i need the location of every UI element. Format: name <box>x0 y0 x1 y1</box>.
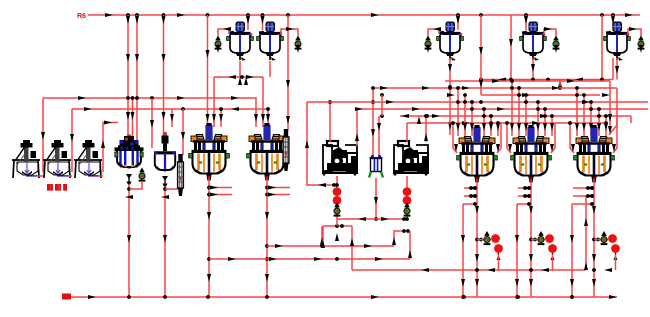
vent pipe T3 <box>428 29 439 36</box>
flow arrow <box>244 77 248 85</box>
top header junction <box>135 13 139 17</box>
flow arrow <box>318 183 326 187</box>
junction <box>150 96 154 100</box>
riser x410 <box>409 231 411 259</box>
flow arrow <box>127 235 131 243</box>
distribution header y81 <box>445 80 610 82</box>
top header flow arrow <box>105 13 113 17</box>
junction <box>586 194 590 198</box>
rotameter x477 <box>491 234 500 243</box>
T3 outlet drop <box>449 58 451 135</box>
reactor drop x267 <box>266 178 268 297</box>
flow arrow <box>475 206 479 214</box>
flow arrow <box>269 257 277 261</box>
flow arrow <box>131 112 135 120</box>
drop to receiver motor <box>171 109 173 127</box>
side hook L x531 <box>507 123 511 153</box>
third stub <box>463 203 475 205</box>
flow arrow <box>584 262 588 270</box>
flow arrow <box>522 93 530 97</box>
junction <box>592 238 596 242</box>
junction <box>470 107 474 111</box>
flow arrow <box>401 114 409 118</box>
flow arrow <box>544 27 552 31</box>
F1 feed 2 <box>378 116 380 155</box>
transfer line y259 <box>209 258 410 260</box>
flow arrow <box>447 93 455 97</box>
rotameter low x531 <box>548 244 557 260</box>
junction <box>448 86 452 90</box>
train valve x477 <box>484 231 491 245</box>
P2 riser R <box>425 116 427 142</box>
junction <box>219 107 223 111</box>
left sample stub <box>464 195 475 197</box>
flow arrow <box>286 27 294 31</box>
junction <box>516 295 520 299</box>
drop to mixer 2 <box>71 109 73 172</box>
flow arrow <box>550 123 554 131</box>
flow arrow <box>496 123 500 131</box>
junction <box>463 93 467 97</box>
flow arrow <box>417 116 421 124</box>
vent valve T4 <box>553 36 560 50</box>
reactor x531 bottom drop <box>530 180 532 297</box>
reactor feed drop x577 <box>576 88 578 136</box>
drop to T4 rim <box>525 15 527 30</box>
junction <box>340 224 344 228</box>
flow arrow <box>531 64 535 72</box>
junction <box>461 295 465 299</box>
distribution header y109 <box>357 108 648 110</box>
junction <box>604 114 608 118</box>
flow arrow <box>515 235 519 243</box>
junction <box>597 114 601 118</box>
side hook L x477 <box>453 123 457 153</box>
vent valve T2 <box>295 36 302 50</box>
recirc line to P1 <box>307 102 333 185</box>
junction <box>531 78 535 82</box>
junction <box>482 107 486 111</box>
junction <box>206 295 210 299</box>
flow arrow <box>412 107 420 111</box>
reactor feed drop x458 <box>457 88 459 136</box>
flow arrow <box>515 279 519 287</box>
flow arrow <box>567 79 575 83</box>
flow arrow <box>364 244 372 248</box>
bypass drop x463 <box>462 204 464 297</box>
vent outlet arrow T2 <box>296 45 300 53</box>
flow arrow <box>509 39 513 47</box>
junction <box>265 257 269 261</box>
long return y270 <box>352 269 586 271</box>
sample stub <box>209 187 232 189</box>
P1 discharge <box>336 176 338 219</box>
left sample stub <box>518 195 529 197</box>
junction <box>523 186 527 190</box>
drop to condenser A <box>182 109 184 155</box>
drop to T5 rim <box>612 15 614 30</box>
junction <box>479 100 483 104</box>
vent valve T1 <box>215 36 222 50</box>
junction <box>527 194 531 198</box>
flow arrow <box>609 295 617 299</box>
vacuum pump skid P1 <box>322 141 358 176</box>
junction <box>265 244 269 248</box>
flow arrow <box>335 233 339 241</box>
flow arrow <box>454 144 458 152</box>
condenser column CA <box>178 154 184 196</box>
reactor feed drop x498 <box>497 123 499 136</box>
flow arrow <box>470 123 474 131</box>
main bottom drain header <box>71 296 617 298</box>
flow arrow <box>463 123 467 131</box>
flow arrow <box>582 100 590 104</box>
flow arrow <box>170 114 174 122</box>
flow arrow <box>125 195 133 199</box>
reactor feed drop x545 <box>544 109 546 136</box>
flow arrow <box>261 16 265 24</box>
flow arrow <box>592 279 596 287</box>
junction <box>575 93 579 97</box>
flow arrow <box>162 16 166 24</box>
junction <box>127 295 131 299</box>
left sample stub <box>518 187 529 189</box>
flow arrow <box>286 116 290 124</box>
flow arrow <box>608 114 612 122</box>
junction <box>479 78 483 82</box>
distribution header y95 <box>481 94 600 96</box>
junction <box>470 100 474 104</box>
flow arrow <box>433 27 441 31</box>
P1 riser R <box>356 109 358 146</box>
flow arrow <box>543 123 547 131</box>
junction <box>374 217 378 221</box>
flow arrow <box>575 123 579 131</box>
flow arrow <box>475 254 479 262</box>
top header flow arrow <box>625 13 633 17</box>
flow arrow <box>479 80 483 88</box>
junction <box>406 229 410 233</box>
flow arrow <box>510 123 514 131</box>
flow arrow <box>212 114 216 122</box>
top header junction <box>126 13 130 17</box>
flow arrow <box>380 86 388 90</box>
flow arrow <box>246 75 254 79</box>
junction <box>462 295 466 299</box>
distribution header y88 <box>373 87 617 89</box>
staircase drop 2 <box>609 88 617 135</box>
riser x586 <box>585 196 587 270</box>
junction <box>590 194 594 198</box>
train valve x531 <box>538 231 545 245</box>
flow arrow <box>392 237 396 245</box>
reactor feed drop x519 <box>518 88 520 136</box>
drop to glass reactor <box>127 15 129 143</box>
tank collection header right <box>481 79 613 81</box>
flow arrow <box>181 132 185 140</box>
P1 riser L <box>329 102 331 142</box>
overhead feed tank T1 <box>227 22 254 61</box>
filter column F1 <box>369 155 383 178</box>
reactor feed drop x599 <box>598 109 600 136</box>
junction <box>527 186 531 190</box>
junction <box>181 107 185 111</box>
bypass drop x517 <box>516 204 518 297</box>
flow arrow <box>355 107 363 111</box>
riser jog to pump2 valve <box>394 231 404 246</box>
flow arrow <box>529 279 533 287</box>
drop to receiver <box>163 15 165 139</box>
flow arrow <box>219 114 223 122</box>
flow arrow <box>207 212 211 220</box>
flow arrow <box>41 132 45 140</box>
dissolver mixer M2 <box>43 140 71 178</box>
flow arrow <box>582 123 586 131</box>
flow arrow <box>231 96 239 100</box>
junction <box>510 79 514 83</box>
flow arrow <box>522 186 530 190</box>
drop to receiver top <box>151 98 153 148</box>
reactor feed drop x584 <box>583 95 585 136</box>
svg-text:█▌█▌█: █▌█▌█ <box>47 184 67 191</box>
flow arrow <box>314 257 322 261</box>
P2 riser L <box>406 123 408 142</box>
junction <box>424 114 428 118</box>
junction <box>127 187 131 191</box>
junction <box>265 186 269 190</box>
junction <box>515 295 519 299</box>
junction <box>546 78 550 82</box>
junction <box>265 193 269 197</box>
drop x481 <box>480 15 482 95</box>
junction <box>600 78 604 82</box>
junction <box>126 96 130 100</box>
reactor R1 <box>189 123 230 181</box>
junction <box>380 114 384 118</box>
junction <box>575 86 579 90</box>
drop to T1 rim <box>247 15 249 30</box>
junction <box>475 238 479 242</box>
top header junction <box>524 13 528 17</box>
glass-lined reactor GR1 <box>115 134 144 186</box>
junction <box>469 194 473 198</box>
flow arrow <box>524 16 528 24</box>
junction <box>163 295 167 299</box>
flow arrow <box>487 268 495 272</box>
flow arrow <box>162 112 166 120</box>
solvent header upper <box>43 98 256 127</box>
junction <box>527 202 531 206</box>
flow arrow <box>268 186 276 190</box>
flow arrow <box>223 27 231 31</box>
drop left of T4 <box>510 15 512 80</box>
reactor feed drop x512 <box>511 81 513 136</box>
drain valve GR1 <box>139 168 146 182</box>
rotameter pair P1 <box>333 187 342 205</box>
reactor feed drop x552 <box>551 116 553 136</box>
rotameter x594 <box>608 234 617 243</box>
flow arrow <box>592 206 596 214</box>
distribution header y123 <box>407 122 607 124</box>
junction <box>570 295 574 299</box>
junction <box>402 217 406 221</box>
junction <box>469 186 473 190</box>
junction <box>543 114 547 118</box>
T1 outlet <box>239 61 241 77</box>
junction <box>517 93 521 97</box>
flow arrow <box>126 112 130 120</box>
top header junction <box>246 13 250 17</box>
dissolver mixer M1 <box>12 140 40 178</box>
vent pipe T4 <box>544 29 556 36</box>
flow arrow <box>206 114 210 122</box>
junction <box>589 100 593 104</box>
rotameter x531 <box>545 234 554 243</box>
flow arrow <box>508 144 512 152</box>
junction <box>473 186 477 190</box>
flow arrow <box>608 126 612 134</box>
junction <box>570 295 574 299</box>
flow arrow <box>231 107 239 111</box>
flow arrow <box>589 123 593 131</box>
train drop <box>552 254 554 270</box>
flow arrow <box>592 254 596 262</box>
condenser column CB <box>283 129 289 171</box>
train drop <box>498 254 500 270</box>
sample stub 2 <box>267 194 290 196</box>
junction <box>529 238 533 242</box>
header-band link <box>559 80 561 89</box>
junction <box>371 100 375 104</box>
junction <box>456 86 460 90</box>
junction <box>586 186 590 190</box>
rotameter low x477 <box>494 244 503 260</box>
flow arrow <box>461 279 465 287</box>
flow arrow <box>206 50 210 58</box>
flow arrow <box>381 217 389 221</box>
junction <box>451 121 455 125</box>
train hook <box>477 239 491 241</box>
flow arrow <box>377 123 381 131</box>
flow arrow <box>358 217 366 221</box>
junction <box>335 224 339 228</box>
flow arrow <box>475 279 479 287</box>
top header junction <box>456 13 460 17</box>
manifold box left <box>322 226 324 246</box>
third stub <box>572 203 592 205</box>
junction <box>473 194 477 198</box>
flow arrow <box>602 93 610 97</box>
reactor feed drop x591 <box>590 102 592 136</box>
flow arrow <box>496 144 500 152</box>
junction <box>496 121 500 125</box>
junction <box>265 295 269 299</box>
top header junction <box>611 13 615 17</box>
flow arrow <box>228 257 236 261</box>
junction <box>529 268 533 272</box>
flow arrow <box>492 79 500 83</box>
reactor feed drop x526 <box>525 95 527 136</box>
junction <box>463 100 467 104</box>
reactor feed drop x606 <box>605 116 607 136</box>
bypass drop x572 <box>571 204 573 297</box>
flow arrow <box>386 100 394 104</box>
flow arrow <box>355 133 359 141</box>
flow arrow <box>162 54 166 62</box>
junction <box>596 238 600 242</box>
drop to T2 rim <box>262 15 264 30</box>
flow arrow <box>210 186 218 190</box>
pump suction header <box>337 218 407 220</box>
side hook R x531 <box>551 123 555 153</box>
flow arrow <box>522 194 530 198</box>
junction <box>589 107 593 111</box>
junction <box>590 186 594 190</box>
flow arrow <box>604 123 608 131</box>
flow arrow <box>529 206 533 214</box>
top header junction <box>479 13 483 17</box>
flow arrow <box>585 186 593 190</box>
reactor R3 <box>457 125 498 183</box>
junction <box>582 100 586 104</box>
flow arrow <box>498 78 506 82</box>
drop to mixer 1 <box>42 98 44 172</box>
flow arrow <box>479 47 483 55</box>
reactor drop x209 <box>208 178 210 297</box>
flow arrow <box>150 120 154 128</box>
flow arrow <box>275 244 283 248</box>
transfer line y246b <box>352 245 394 247</box>
vent pipe T2 <box>281 29 298 36</box>
flow arrow <box>570 235 574 243</box>
flow arrow <box>558 80 562 88</box>
vent outlet arrow T5 <box>639 45 643 53</box>
flow arrow <box>456 16 460 24</box>
overhead feed tank T4 <box>520 22 547 61</box>
drop to T3 rim <box>457 15 459 30</box>
junction <box>533 238 537 242</box>
distribution header y102 <box>307 101 648 103</box>
flow arrow <box>88 295 96 299</box>
train hook <box>531 239 545 241</box>
flow arrow <box>432 114 440 118</box>
vent pipe T1 <box>218 29 229 36</box>
flow arrow <box>421 268 429 272</box>
junction <box>550 114 554 118</box>
flow arrow <box>462 121 470 125</box>
top header junction <box>261 13 265 17</box>
train drop <box>615 254 617 270</box>
flow arrow <box>101 140 105 148</box>
flow arrow <box>489 123 493 131</box>
junction <box>524 100 528 104</box>
distribution header y116 <box>400 115 631 117</box>
flow arrow <box>462 86 470 90</box>
junction <box>473 202 477 206</box>
flow arrow <box>126 54 130 62</box>
reactor R5 <box>574 125 615 183</box>
main top header pipe <box>88 14 640 16</box>
flow arrow <box>571 144 575 152</box>
band interconnect <box>381 95 383 116</box>
flow arrow <box>448 122 452 130</box>
flow arrow <box>238 77 242 85</box>
train valve x594 <box>601 231 608 245</box>
flow arrow <box>320 237 324 245</box>
top header junction <box>600 13 604 17</box>
receiver vessel RV1 <box>154 132 176 189</box>
vent pipe T5 <box>628 29 641 36</box>
